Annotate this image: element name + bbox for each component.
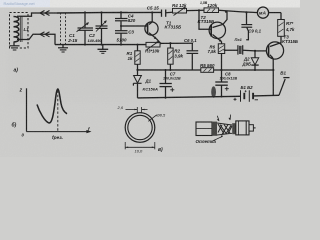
resonance curve — [37, 89, 67, 123]
paper background — [0, 0, 300, 157]
resistor R4 12k (trimmer) — [173, 7, 205, 16]
cable left dark ferrule — [212, 122, 217, 136]
capacitor C6 0,1 — [187, 43, 199, 70]
piezo element Pe1 — [225, 45, 255, 54]
zener diode D1 KC156A — [133, 70, 141, 98]
stub tip — [253, 127, 255, 129]
switch B1 (S1) — [279, 78, 290, 96]
ground (under coil) — [10, 42, 20, 50]
wire: top rail — [57, 11, 161, 14]
capacitor C8 100,0x12V (electrolytic) — [215, 70, 229, 98]
ink blot — [211, 86, 216, 98]
coil L1 — [14, 16, 23, 42]
resistor R2 3,9k — [168, 42, 173, 71]
resistor R6 7,5k — [218, 44, 225, 71]
ferrite ring inner circle — [128, 115, 152, 139]
diameter leader — [148, 115, 157, 122]
wire: T1 base line — [121, 25, 148, 27]
antenna screen dashed box — [10, 13, 29, 49]
ground (under C2) — [98, 45, 109, 54]
wire: mid rail y70 — [138, 69, 201, 71]
capacitor C1 (trimmer 2-15) — [77, 11, 94, 45]
dashed resonance line — [57, 91, 59, 132]
capacitor C5 15 — [162, 10, 173, 17]
scan grain overlay — [0, 0, 300, 157]
wire: antenna top lead with step — [17, 13, 57, 16]
wire: emitter line to C6/R2 — [161, 42, 194, 44]
connector chevrons bottom — [40, 32, 50, 37]
connector stub — [249, 125, 253, 131]
cable right connector body — [236, 121, 249, 135]
battery B1 B2 — [234, 90, 259, 102]
cable braid section — [217, 123, 232, 135]
connector chevrons top — [40, 11, 50, 16]
resistor R5 560 — [201, 68, 214, 73]
cable left cylinder — [196, 122, 212, 136]
capacitor C7 100,0x12V (electrolytic) — [160, 69, 175, 99]
braid arrows — [217, 115, 231, 122]
wire: antenna bottom lead — [17, 34, 55, 44]
resistor R7* 4,7k — [278, 13, 285, 44]
ground (input shield) — [58, 45, 68, 52]
watermark strip — [0, 0, 50, 7]
diode D2 D9B — [251, 50, 258, 71]
graph x-axis — [27, 131, 90, 133]
wire: T3 base lead — [255, 50, 266, 52]
opletka leader arrow — [213, 136, 223, 141]
wire: bottom rail — [138, 96, 241, 98]
cable right dark ferrule — [232, 123, 236, 134]
resistor R1 1k — [135, 44, 140, 71]
top light band — [0, 0, 300, 8]
capacitor C4 820 — [115, 11, 128, 30]
wire: T2 base feed — [199, 11, 211, 30]
capacitor C9 0,1 — [241, 11, 252, 39]
dimension 2,6 — [126, 107, 148, 113]
meter mA — [240, 7, 281, 18]
transistor T1 — [145, 11, 161, 43]
dimension 10,0 — [125, 142, 155, 149]
transistor T2 — [198, 9, 227, 44]
connector cap line — [245, 121, 247, 135]
shield dashed lines at input — [61, 13, 66, 45]
resistor R3* 10k (trimmer) — [146, 41, 162, 50]
transistor T3 — [266, 42, 283, 95]
ferrite ring outer circle — [125, 113, 155, 143]
resistor 120k — [204, 8, 240, 13]
capacitor C3 5100 — [115, 25, 128, 46]
wire: ground rail — [55, 44, 146, 46]
capacitor C2 (variable 140-490) — [96, 11, 108, 45]
graph y-axis — [26, 88, 28, 131]
